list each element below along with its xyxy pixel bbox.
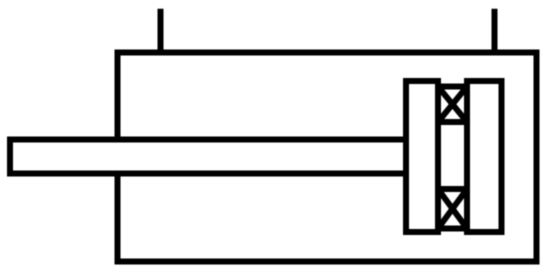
top seal X diagonal 2 (438, 87, 467, 123)
right port line (492, 9, 498, 52)
top seal box (438, 87, 467, 123)
bottom seal X diagonal 2 (438, 189, 467, 229)
piston rod (10, 140, 406, 174)
cylinder body (118, 53, 537, 262)
top seal X diagonal 1 (438, 87, 467, 123)
left piston plate (406, 81, 438, 232)
right piston plate (467, 81, 502, 232)
bottom seal box (438, 189, 467, 229)
bottom seal X diagonal 1 (438, 189, 467, 229)
left port line (158, 9, 164, 52)
